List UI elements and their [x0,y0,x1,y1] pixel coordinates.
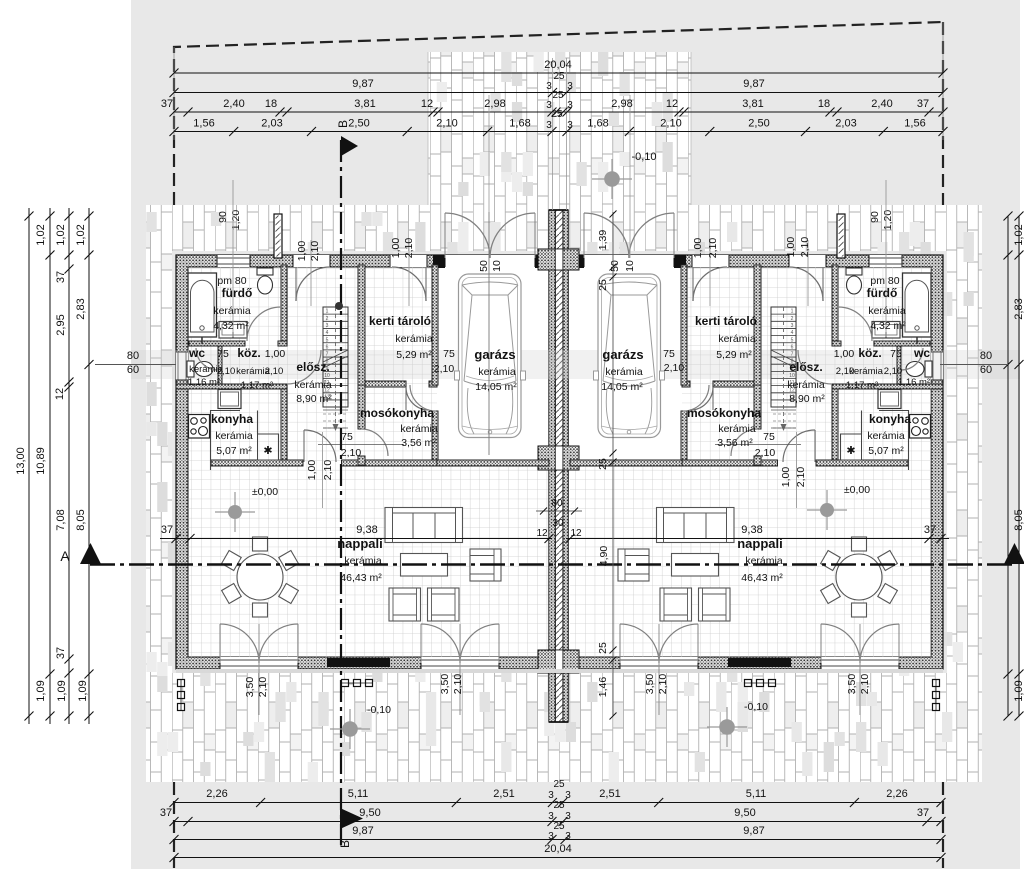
svg-text:2,10: 2,10 [795,467,807,488]
svg-text:1,39: 1,39 [597,230,609,251]
svg-text:10: 10 [491,260,503,272]
svg-text:9,87: 9,87 [352,78,373,90]
svg-text:1,02: 1,02 [1013,224,1024,245]
svg-text:kerámia: kerámia [718,423,756,435]
svg-text:garázs: garázs [474,347,515,362]
svg-text:5: 5 [791,337,794,343]
svg-text:90: 90 [869,211,881,223]
svg-text:2,10: 2,10 [859,674,871,695]
svg-text:50: 50 [478,260,490,272]
svg-text:nappali: nappali [737,536,783,551]
svg-text:1,09: 1,09 [77,680,89,701]
svg-text:1,00: 1,00 [785,237,797,258]
svg-text:-0,10: -0,10 [744,701,768,713]
svg-text:75: 75 [217,348,229,360]
svg-text:3: 3 [567,120,573,131]
svg-text:25: 25 [597,642,609,654]
svg-text:kerámia: kerámia [605,366,643,378]
svg-text:kerámia: kerámia [849,366,884,377]
svg-text:2,40: 2,40 [871,98,892,110]
svg-text:1,09: 1,09 [56,680,68,701]
svg-text:kerámia: kerámia [478,366,516,378]
svg-text:25: 25 [553,821,565,832]
svg-text:1,00: 1,00 [692,238,704,259]
svg-text:nappali: nappali [337,536,383,551]
svg-text:7,08: 7,08 [55,509,67,530]
svg-text:25: 25 [552,90,564,101]
svg-text:1,09: 1,09 [1013,680,1024,701]
svg-text:9,38: 9,38 [356,524,377,536]
svg-text:3,50: 3,50 [846,674,858,695]
svg-text:75: 75 [663,348,675,360]
svg-text:1,16 m²: 1,16 m² [188,377,220,388]
svg-text:wc: wc [913,346,930,360]
svg-text:90: 90 [217,211,229,223]
svg-text:2,98: 2,98 [484,98,505,110]
svg-text:10: 10 [624,260,636,272]
svg-text:✱: ✱ [846,445,855,457]
svg-text:12: 12 [570,528,582,539]
svg-text:1,20: 1,20 [230,210,242,231]
svg-text:2,10: 2,10 [257,677,269,698]
svg-text:wc: wc [188,346,205,360]
svg-text:3: 3 [546,81,552,92]
svg-text:-0,10: -0,10 [631,151,656,163]
svg-text:37: 37 [161,98,173,110]
svg-text:1: 1 [326,309,329,315]
svg-text:50: 50 [609,260,621,272]
svg-text:60: 60 [980,364,992,376]
svg-text:4,32 m²: 4,32 m² [870,320,906,332]
svg-text:1,16 m²: 1,16 m² [898,377,930,388]
svg-text:4,90: 4,90 [598,546,610,567]
svg-text:2,50: 2,50 [748,118,769,130]
svg-text:2,10: 2,10 [434,363,455,375]
svg-text:18: 18 [818,98,830,110]
svg-text:kerámia: kerámia [787,379,825,391]
svg-text:12: 12 [54,388,66,400]
svg-text:2,10: 2,10 [884,366,903,377]
svg-text:mosókonyha: mosókonyha [687,406,761,420]
svg-text:25: 25 [553,779,565,790]
svg-text:13,00: 13,00 [15,447,27,475]
svg-text:konyha: konyha [869,412,911,426]
svg-text:kerti tároló: kerti tároló [695,314,757,328]
svg-text:fürdő: fürdő [867,286,898,300]
svg-text:9,38: 9,38 [741,524,762,536]
svg-text:37: 37 [917,807,929,819]
svg-text:fürdő: fürdő [222,286,253,300]
svg-text:5,07 m²: 5,07 m² [868,445,904,457]
svg-text:3,50: 3,50 [644,674,656,695]
svg-text:kerámia: kerámia [294,379,332,391]
svg-text:9,87: 9,87 [743,78,764,90]
svg-text:30: 30 [552,518,564,529]
svg-text:1,00: 1,00 [306,460,318,481]
svg-text:kerámia: kerámia [344,555,382,567]
svg-text:37: 37 [161,524,173,536]
svg-text:2,26: 2,26 [206,788,227,800]
svg-text:46,43 m²: 46,43 m² [741,572,783,584]
svg-text:1,00: 1,00 [780,467,792,488]
svg-text:kerámia: kerámia [213,305,251,317]
svg-text:2,10: 2,10 [799,237,811,258]
svg-text:2,10: 2,10 [309,241,321,262]
svg-text:kerámia: kerámia [745,555,783,567]
svg-text:2,10: 2,10 [341,447,362,459]
svg-text:3,81: 3,81 [742,98,763,110]
svg-text:3: 3 [565,831,571,842]
svg-text:12: 12 [666,98,678,110]
svg-text:kerámia: kerámia [395,333,433,345]
svg-text:2,10: 2,10 [265,366,284,377]
svg-text:2,95: 2,95 [55,314,67,335]
svg-text:20,04: 20,04 [544,59,572,71]
svg-text:6: 6 [791,344,794,350]
svg-text:9,87: 9,87 [743,825,764,837]
svg-text:1,02: 1,02 [75,224,87,245]
svg-text:37: 37 [55,271,67,283]
svg-text:konyha: konyha [211,412,253,426]
svg-text:5,07 m²: 5,07 m² [216,445,252,457]
svg-text:7: 7 [791,352,794,358]
svg-text:kerámia: kerámia [718,333,756,345]
svg-text:2: 2 [326,316,329,322]
svg-text:2,26: 2,26 [886,788,907,800]
svg-text:14,05 m²: 14,05 m² [601,381,643,393]
svg-text:elősz.: elősz. [789,360,822,374]
svg-text:2,10: 2,10 [664,362,685,374]
svg-text:10,89: 10,89 [35,447,47,475]
svg-text:37: 37 [924,524,936,536]
svg-text:2,51: 2,51 [599,788,620,800]
svg-text:2,10: 2,10 [322,460,334,481]
svg-text:4: 4 [326,330,329,336]
svg-text:garázs: garázs [602,347,643,362]
svg-text:3: 3 [565,811,571,822]
svg-text:3: 3 [567,100,573,111]
svg-text:9,50: 9,50 [359,807,380,819]
svg-text:75: 75 [763,431,775,443]
svg-text:2,10: 2,10 [707,238,719,259]
svg-text:1,09: 1,09 [35,680,47,701]
svg-text:37: 37 [55,647,67,659]
svg-text:75: 75 [443,348,455,360]
svg-text:60: 60 [127,364,139,376]
svg-text:3: 3 [548,831,554,842]
svg-text:12: 12 [536,528,548,539]
svg-text:1,00: 1,00 [834,348,855,360]
svg-text:46,43 m²: 46,43 m² [340,572,382,584]
svg-text:elősz.: elősz. [296,360,329,374]
svg-text:25: 25 [597,279,609,291]
svg-text:mosókonyha: mosókonyha [360,406,434,420]
svg-text:±0,00: ±0,00 [844,484,870,496]
svg-text:8,90 m²: 8,90 m² [789,393,825,405]
svg-text:3,50: 3,50 [439,674,451,695]
svg-text:3,56 m²: 3,56 m² [401,437,437,449]
svg-text:2,83: 2,83 [75,298,87,319]
svg-text:5,29 m²: 5,29 m² [716,349,752,361]
svg-text:25: 25 [597,458,609,470]
svg-text:25: 25 [553,800,565,811]
svg-text:1,56: 1,56 [904,118,925,130]
svg-text:4,32 m²: 4,32 m² [213,320,249,332]
svg-text:80: 80 [551,498,563,509]
svg-text:1,00: 1,00 [265,348,286,360]
svg-text:3,50: 3,50 [244,677,256,698]
svg-text:2,83: 2,83 [1013,298,1024,319]
svg-text:5,11: 5,11 [348,788,369,800]
svg-text:1,02: 1,02 [55,224,67,245]
svg-text:2,10: 2,10 [403,238,415,259]
svg-text:25: 25 [553,71,565,82]
svg-text:B: B [338,840,352,848]
svg-text:kerti tároló: kerti tároló [369,314,431,328]
svg-text:1,00: 1,00 [296,241,308,262]
svg-text:80: 80 [127,350,139,362]
svg-text:12: 12 [421,98,433,110]
svg-text:8,90 m²: 8,90 m² [296,393,332,405]
svg-text:18: 18 [265,98,277,110]
svg-text:2,40: 2,40 [223,98,244,110]
svg-text:2,03: 2,03 [261,118,282,130]
svg-text:80: 80 [980,350,992,362]
svg-text:20,04: 20,04 [544,843,572,855]
svg-text:5,29 m²: 5,29 m² [396,349,432,361]
svg-text:kerámia: kerámia [867,430,905,442]
svg-text:75: 75 [341,431,353,443]
svg-text:2,10: 2,10 [436,118,457,130]
svg-text:3: 3 [567,81,573,92]
svg-text:2,10: 2,10 [660,118,681,130]
svg-text:2,10: 2,10 [217,366,236,377]
svg-text:1,02: 1,02 [35,224,47,245]
svg-text:75: 75 [890,348,902,360]
svg-text:3: 3 [546,120,552,131]
svg-text:2,51: 2,51 [493,788,514,800]
svg-text:3,56 m²: 3,56 m² [717,437,753,449]
svg-text:1,56: 1,56 [193,118,214,130]
svg-text:1,17 m²: 1,17 m² [241,380,273,391]
svg-text:7: 7 [326,352,329,358]
svg-text:kerámia: kerámia [215,430,253,442]
svg-text:37: 37 [160,807,172,819]
svg-text:2,03: 2,03 [835,118,856,130]
svg-text:2,10: 2,10 [755,447,776,459]
svg-text:25: 25 [551,109,563,120]
svg-text:±0,00: ±0,00 [252,486,278,498]
svg-text:37: 37 [917,98,929,110]
svg-text:köz.: köz. [858,346,881,360]
svg-text:3,81: 3,81 [354,98,375,110]
svg-text:2,10: 2,10 [657,674,669,695]
svg-text:14,05 m²: 14,05 m² [475,381,517,393]
svg-text:1,17 m²: 1,17 m² [846,380,878,391]
svg-text:1: 1 [791,309,794,315]
svg-text:5: 5 [326,337,329,343]
svg-text:4: 4 [791,330,794,336]
svg-text:9,87: 9,87 [352,825,373,837]
svg-text:1,68: 1,68 [509,118,530,130]
svg-text:9,50: 9,50 [734,807,755,819]
svg-text:8,05: 8,05 [75,509,87,530]
svg-text:kerámia: kerámia [868,305,906,317]
svg-text:-0,10: -0,10 [367,704,391,716]
svg-text:✱: ✱ [263,445,272,457]
svg-text:1,68: 1,68 [587,118,608,130]
svg-text:2: 2 [791,316,794,322]
svg-text:2,98: 2,98 [611,98,632,110]
svg-text:3: 3 [565,790,571,801]
svg-text:1,00: 1,00 [390,238,402,259]
svg-text:3: 3 [326,323,329,329]
svg-text:2,10: 2,10 [452,674,464,695]
svg-text:kerámia: kerámia [400,423,438,435]
svg-text:3: 3 [791,323,794,329]
svg-text:1,20: 1,20 [882,210,894,231]
svg-text:8,05: 8,05 [1013,509,1024,530]
svg-text:köz.: köz. [237,346,260,360]
svg-text:1,46: 1,46 [597,677,609,698]
svg-text:5,11: 5,11 [746,788,767,800]
svg-text:6: 6 [326,344,329,350]
svg-text:2,50: 2,50 [348,118,369,130]
